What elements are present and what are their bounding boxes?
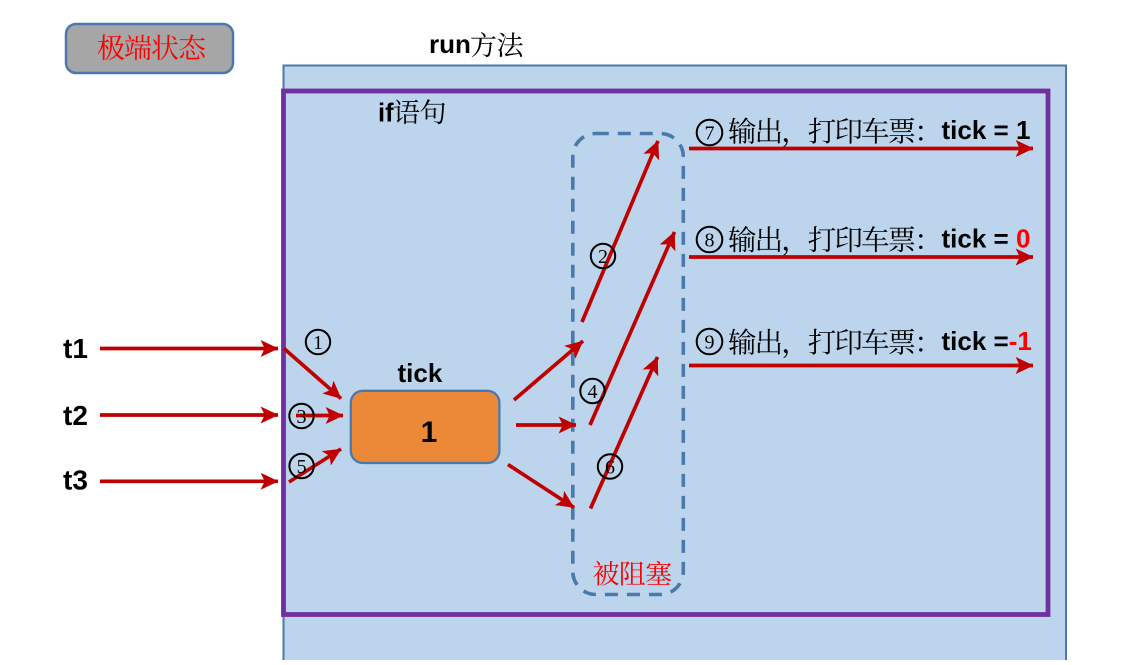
- svg-text:1: 1: [421, 416, 438, 449]
- svg-text:tick: tick: [398, 358, 443, 388]
- svg-text:5: 5: [297, 456, 307, 478]
- svg-text:4: 4: [588, 381, 598, 403]
- svg-text:run: run: [429, 29, 471, 59]
- svg-text:tick = 0: tick = 0: [942, 224, 1031, 254]
- svg-text:t3: t3: [63, 465, 88, 496]
- svg-text:2: 2: [598, 246, 608, 268]
- svg-text:9: 9: [705, 332, 715, 354]
- svg-text:1: 1: [313, 332, 323, 354]
- svg-text:7: 7: [705, 123, 715, 145]
- svg-text:8: 8: [705, 230, 715, 252]
- svg-text:3: 3: [297, 406, 307, 428]
- svg-text:t2: t2: [63, 400, 88, 431]
- svg-text:t1: t1: [63, 333, 88, 364]
- svg-text:tick = 1: tick = 1: [942, 115, 1031, 145]
- svg-text:if: if: [378, 100, 394, 128]
- svg-text:tick =-1: tick =-1: [942, 326, 1032, 356]
- svg-text:6: 6: [605, 457, 615, 479]
